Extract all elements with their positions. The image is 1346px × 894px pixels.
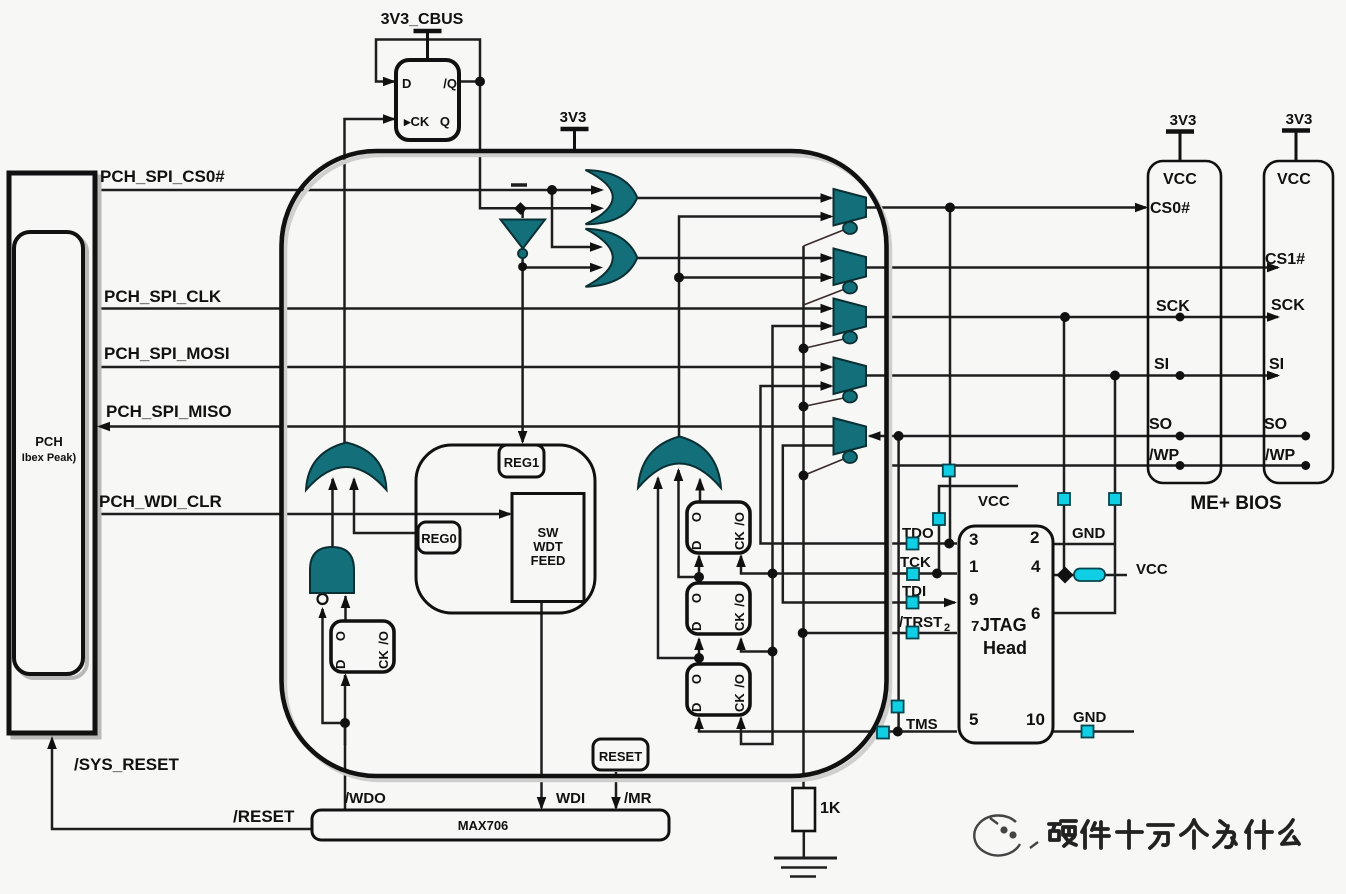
svg-text:3V3: 3V3 bbox=[1170, 112, 1197, 129]
svg-text:/RESET: /RESET bbox=[233, 807, 295, 826]
svg-text:GND: GND bbox=[1072, 525, 1106, 542]
svg-text:4: 4 bbox=[1031, 557, 1041, 576]
svg-text:GND: GND bbox=[1073, 709, 1107, 726]
svg-text:/Q: /Q bbox=[443, 76, 457, 91]
svg-text:10: 10 bbox=[1026, 710, 1045, 729]
svg-text:PCH: PCH bbox=[35, 434, 62, 449]
svg-text:VCC: VCC bbox=[978, 493, 1010, 510]
svg-text:PCH_SPI_CS0#: PCH_SPI_CS0# bbox=[100, 167, 225, 186]
svg-text:VCC: VCC bbox=[1163, 171, 1197, 188]
svg-text:/WDO: /WDO bbox=[345, 790, 386, 807]
svg-text:SO: SO bbox=[1264, 416, 1287, 433]
svg-text:/WP: /WP bbox=[1149, 447, 1180, 464]
svg-text:ME+ BIOS: ME+ BIOS bbox=[1190, 493, 1281, 514]
svg-text:/SYS_RESET: /SYS_RESET bbox=[74, 755, 179, 774]
svg-text:REG1: REG1 bbox=[504, 455, 539, 470]
svg-text:D: D bbox=[402, 76, 411, 91]
svg-text:7: 7 bbox=[971, 618, 979, 635]
svg-text:3V3: 3V3 bbox=[1286, 111, 1313, 128]
svg-text:Head: Head bbox=[983, 638, 1027, 658]
svg-text:TMS: TMS bbox=[906, 716, 938, 733]
svg-text:SO: SO bbox=[1149, 416, 1172, 433]
svg-text:VCC: VCC bbox=[1277, 171, 1311, 188]
svg-text:SCK: SCK bbox=[1271, 297, 1305, 314]
svg-text:Ibex Peak): Ibex Peak) bbox=[22, 452, 77, 464]
svg-text:2: 2 bbox=[944, 622, 950, 634]
svg-text:MAX706: MAX706 bbox=[458, 818, 509, 833]
svg-text:3V3_CBUS: 3V3_CBUS bbox=[381, 11, 464, 28]
svg-text:PCH_SPI_MISO: PCH_SPI_MISO bbox=[106, 402, 232, 421]
svg-text:WDT: WDT bbox=[533, 539, 563, 554]
svg-text:JTAG: JTAG bbox=[980, 615, 1027, 635]
svg-text:RESET: RESET bbox=[599, 749, 642, 764]
svg-text:/WP: /WP bbox=[1265, 447, 1296, 464]
svg-text:PCH_WDI_CLR: PCH_WDI_CLR bbox=[99, 492, 222, 511]
svg-text:VCC: VCC bbox=[1136, 561, 1168, 578]
svg-text:SCK: SCK bbox=[1156, 298, 1190, 315]
svg-text:6: 6 bbox=[1031, 604, 1040, 623]
svg-text:PCH_SPI_MOSI: PCH_SPI_MOSI bbox=[104, 344, 230, 363]
svg-text:SW: SW bbox=[538, 525, 560, 540]
svg-text:1K: 1K bbox=[820, 800, 841, 817]
svg-text:3: 3 bbox=[969, 530, 978, 549]
svg-text:Q: Q bbox=[440, 114, 450, 129]
svg-text:/MR: /MR bbox=[624, 790, 652, 807]
svg-text:WDI: WDI bbox=[556, 790, 585, 807]
svg-text:FEED: FEED bbox=[531, 553, 566, 568]
svg-text:1: 1 bbox=[969, 557, 978, 576]
svg-text:5: 5 bbox=[969, 710, 978, 729]
svg-text:▸CK: ▸CK bbox=[403, 114, 430, 129]
svg-text:REG0: REG0 bbox=[421, 531, 456, 546]
svg-text:9: 9 bbox=[969, 590, 978, 609]
svg-text:CS0#: CS0# bbox=[1150, 200, 1190, 217]
svg-text:PCH_SPI_CLK: PCH_SPI_CLK bbox=[104, 287, 222, 306]
svg-text:3V3: 3V3 bbox=[560, 109, 587, 126]
svg-text:/TRST: /TRST bbox=[899, 614, 942, 631]
svg-text:SI: SI bbox=[1154, 356, 1169, 373]
svg-text:2: 2 bbox=[1030, 528, 1039, 547]
svg-text:SI: SI bbox=[1269, 356, 1284, 373]
